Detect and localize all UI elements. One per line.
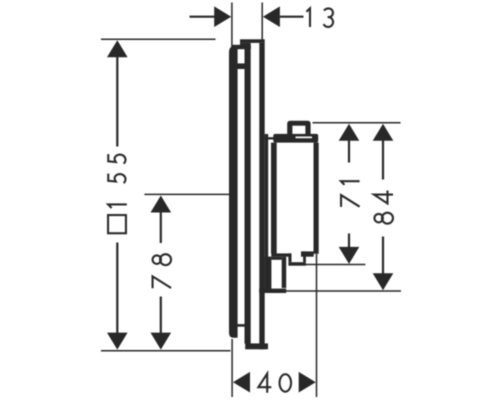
- dimension 84 value label: [374, 191, 393, 224]
- dimension 71 value label: [341, 181, 360, 207]
- dimension 78 top extension line: [144, 193, 229, 195]
- carrier plate top bar: [240, 39, 265, 49]
- cartridge body bottom left segment: [271, 253, 291, 259]
- outlet stub left wall: [288, 253, 291, 262]
- dimension 13 dim line right tail: [280, 16, 304, 18]
- dimension 155 down arrow: [107, 333, 128, 350]
- dimension 84 bottom extension line: [259, 290, 401, 292]
- connector tick carrier to flange: [265, 137, 274, 139]
- dimension 78 dim line upper segment: [160, 212, 162, 243]
- dimension 40 value label: [258, 374, 291, 393]
- dimension 40 right arrow: [299, 372, 316, 393]
- outlet stub right wall: [303, 251, 306, 262]
- dimension 155 square symbol: [108, 215, 126, 233]
- dimension 155 bottom extension line: [101, 350, 231, 352]
- dimension 40 left extension line: [231, 339, 233, 397]
- dimension 84 dim line upper segment: [382, 141, 384, 180]
- dimension 84 up arrow: [373, 124, 394, 141]
- foot bottom bar: [259, 289, 286, 293]
- dimension 71 dim line upper segment: [348, 141, 350, 163]
- foot bar: [282, 257, 287, 288]
- dimension 84 down arrow: [373, 273, 394, 290]
- dimension 13 dim line left tail: [190, 16, 216, 18]
- handle stub knob: [287, 121, 310, 134]
- cartridge body right wall: [314, 143, 319, 254]
- carrier plate bottom bar: [245, 343, 268, 349]
- mounting bar behind carrier: [265, 134, 269, 291]
- dimension 71 up arrow: [339, 124, 360, 141]
- dimension 71 dim line lower segment: [348, 234, 350, 248]
- front plate top cap: [233, 45, 251, 49]
- front plate clip band upper: [238, 63, 246, 69]
- dimension 155 value label: [108, 154, 127, 208]
- cartridge body bottom right segment: [301, 251, 314, 256]
- dimension 40 right extension line: [316, 254, 318, 397]
- dimension 13 right extension line: [261, 3, 263, 40]
- cartridge body left wall: [271, 143, 277, 254]
- dimension 13 value label: [306, 8, 333, 27]
- dimension 155 top extension line: [101, 38, 216, 40]
- dimension 155 dim line upper segment: [116, 57, 118, 147]
- carrier plate right wall: [259, 43, 264, 349]
- dimension 155 dim line lower segment: [116, 243, 118, 334]
- dimension 78 up arrow: [151, 196, 172, 213]
- front plate clip band lower: [236, 324, 245, 327]
- dimension 40 left arrow: [233, 372, 250, 393]
- dimension 13 left extension line: [231, 3, 233, 51]
- dimension 13 left arrow: [214, 6, 231, 27]
- dimension 13 right arrow: [263, 6, 280, 27]
- dimension 71 bottom extension line: [305, 264, 365, 266]
- carrier plate left wall: [245, 45, 251, 343]
- outlet stub bottom: [288, 262, 306, 266]
- dimension 71 down arrow: [339, 247, 360, 264]
- dimension 78 value label: [153, 254, 172, 288]
- dimension 78 dim line lower segment: [160, 297, 162, 334]
- cartridge flange cap: [273, 134, 318, 143]
- dimension 78 down arrow: [151, 333, 172, 350]
- front cover plate side profile: [229, 46, 238, 338]
- dimension 84 dim line lower segment: [382, 237, 384, 274]
- dimension 71 84 top extension line: [313, 122, 401, 124]
- dimension 155 up arrow: [107, 40, 128, 57]
- corner filler carrier to body wall: [265, 257, 272, 292]
